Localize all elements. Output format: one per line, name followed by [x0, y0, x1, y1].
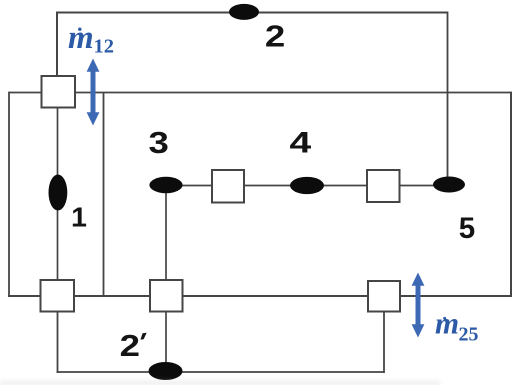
- square junction S3 (bottom-middle): [150, 280, 183, 312]
- wire top-right vertical down to ellipse 5: [447, 12, 449, 181]
- svg-text:3: 3: [149, 127, 169, 160]
- svg-text:2: 2: [120, 330, 140, 363]
- label 1 base bar: [73, 224, 86, 227]
- wire S3 down to ellipse 2': [165, 311, 167, 368]
- wire bottom return horizontal: [57, 371, 384, 373]
- wire middle row y=185.5 segment 3: [399, 185, 449, 187]
- label 2' prime: [140, 333, 146, 340]
- label m12 (blue): [68, 20, 114, 58]
- wire S4 bottom vertical: [383, 311, 385, 373]
- wire bottom bus y=296 segment 3: [182, 295, 369, 297]
- ellipse node 3: [149, 177, 182, 193]
- square junction S1 (top-left): [42, 76, 76, 108]
- square junction S4 (bottom-right): [368, 281, 400, 312]
- wire bottom bus y=296 segment 4: [400, 295, 512, 297]
- square junction SA (middle row left): [212, 170, 244, 203]
- wire middle row y=185.5 segment 1: [166, 185, 213, 187]
- wire bottom bus y=296 segment 2: [74, 295, 151, 297]
- label 4: [289, 127, 311, 160]
- svg-text:25: 25: [459, 323, 479, 345]
- label m25 (blue): [435, 306, 479, 346]
- wire big-box left edge: [103, 93, 105, 297]
- wire big-box top edge: [75, 92, 511, 94]
- wire top-left vertical into square S1: [56, 12, 58, 78]
- svg-text:m: m: [68, 20, 94, 56]
- bottom scan smudge: [0, 381, 440, 385]
- svg-text:m: m: [435, 306, 459, 341]
- label 2': [120, 330, 140, 363]
- ellipse node 5: [433, 177, 465, 193]
- label 2: [265, 20, 285, 53]
- wire top loop horizontal: [57, 12, 447, 14]
- svg-text:1: 1: [71, 202, 87, 233]
- ellipse node 1 (left, vertical): [49, 175, 68, 211]
- ellipse node 4: [290, 177, 324, 194]
- svg-text:4: 4: [289, 127, 311, 160]
- wire middle row y=185.5 segment 2: [243, 185, 367, 187]
- arrow m12 (blue double-headed vertical): [87, 59, 100, 126]
- wire outer-left top edge: [9, 92, 42, 94]
- wire ellipse 3 down to square S3: [165, 188, 167, 281]
- wire big-box right edge: [510, 92, 512, 296]
- ellipse node 2' (bottom): [149, 362, 183, 380]
- square junction SB (middle row right): [367, 170, 400, 202]
- svg-text:2: 2: [265, 20, 285, 53]
- wire outer-left left edge: [8, 92, 10, 296]
- wire bottom bus y=296 segment 1: [8, 295, 41, 297]
- svg-text:5: 5: [459, 212, 475, 245]
- arrow m25 (blue double-headed vertical): [412, 273, 425, 338]
- wire S2 bottom vertical: [57, 311, 59, 373]
- ellipse node 2 (top): [229, 4, 259, 20]
- label 3: [149, 127, 169, 160]
- svg-text:12: 12: [94, 36, 115, 58]
- wire S1 to ellipse 1 to S2 vertical: [57, 107, 59, 281]
- square junction S2 (bottom-left): [41, 280, 75, 312]
